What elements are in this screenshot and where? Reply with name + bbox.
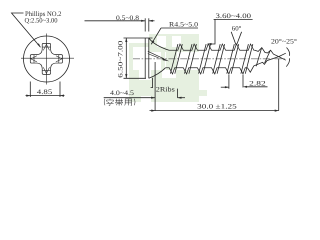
穿 <box>106 99 113 106</box>
svg-text:2Ribs: 2Ribs <box>156 87 175 94</box>
taper bottom profile <box>248 57 279 73</box>
svg-text:2.82: 2.82 <box>249 80 266 87</box>
label (chinese: strip feed use) <box>104 99 135 106</box>
head front view: horizontal centerline <box>21 57 74 59</box>
ext line head-to-thread (left ext of 30.0) <box>154 62 156 111</box>
phillips recess cross <box>30 43 62 74</box>
head front view: vertical centerline <box>46 34 48 85</box>
phillips recess tip notches <box>42 46 50 48</box>
svg-text:6.50~7.00: 6.50~7.00 <box>118 40 125 78</box>
svg-text:4.85: 4.85 <box>37 89 53 96</box>
svg-text:60°: 60° <box>232 26 242 33</box>
shank bottom root profile with thread crests <box>166 68 248 74</box>
watermark logo (light green) <box>129 34 207 102</box>
taper flank bands <box>256 48 261 66</box>
svg-text:4.0~4.5: 4.0~4.5 <box>110 90 135 97</box>
svg-text:0.5~0.8: 0.5~0.8 <box>116 15 140 22</box>
leader line for phillips label <box>12 13 41 47</box>
dim 2.82 arrows and line <box>221 86 229 88</box>
svg-text:R4.5~5.0: R4.5~5.0 <box>169 21 199 28</box>
svg-text:Q:2.50~3.00: Q:2.50~3.00 <box>25 18 59 25</box>
dim 6.50~7.00 dimension line <box>125 38 127 78</box>
phillips recess chisel flats <box>31 44 62 73</box>
svg-text:30.0 ±1.25: 30.0 ±1.25 <box>197 103 237 110</box>
taper top profile <box>255 48 279 57</box>
rib 2 <box>162 58 169 62</box>
shank top root profile with thread crests <box>169 44 255 50</box>
bugle bottom curve <box>149 68 166 79</box>
head front view circle <box>24 36 70 82</box>
dim 4.85 dimension line <box>26 95 65 97</box>
dim 30.0 right extension line <box>278 59 280 111</box>
rib 1 <box>148 51 164 59</box>
dim 4.0~4.5 dimension line <box>104 97 155 99</box>
bugle top curve <box>149 38 169 50</box>
用 <box>124 99 131 106</box>
label 2Ribs with leader <box>151 78 153 88</box>
tip angle extension marks <box>279 53 286 56</box>
svg-text:20°~25°: 20°~25° <box>271 39 297 46</box>
head side view face lines <box>144 38 146 78</box>
side view centerline <box>133 58 285 60</box>
帶 <box>115 99 122 106</box>
watermark white cutouts <box>139 36 181 102</box>
dim 2.82 extension lines <box>228 75 230 89</box>
thread flank bands <box>170 44 270 74</box>
dim 6.50~7.00 extension lines <box>124 37 153 39</box>
dim 0.5~0.8 dimension line <box>85 20 146 22</box>
dim 4.85 extension lines <box>29 82 31 98</box>
dim 30.0 dimension line <box>150 110 279 112</box>
dim 0.5~0.8 extension ticks <box>144 18 146 31</box>
